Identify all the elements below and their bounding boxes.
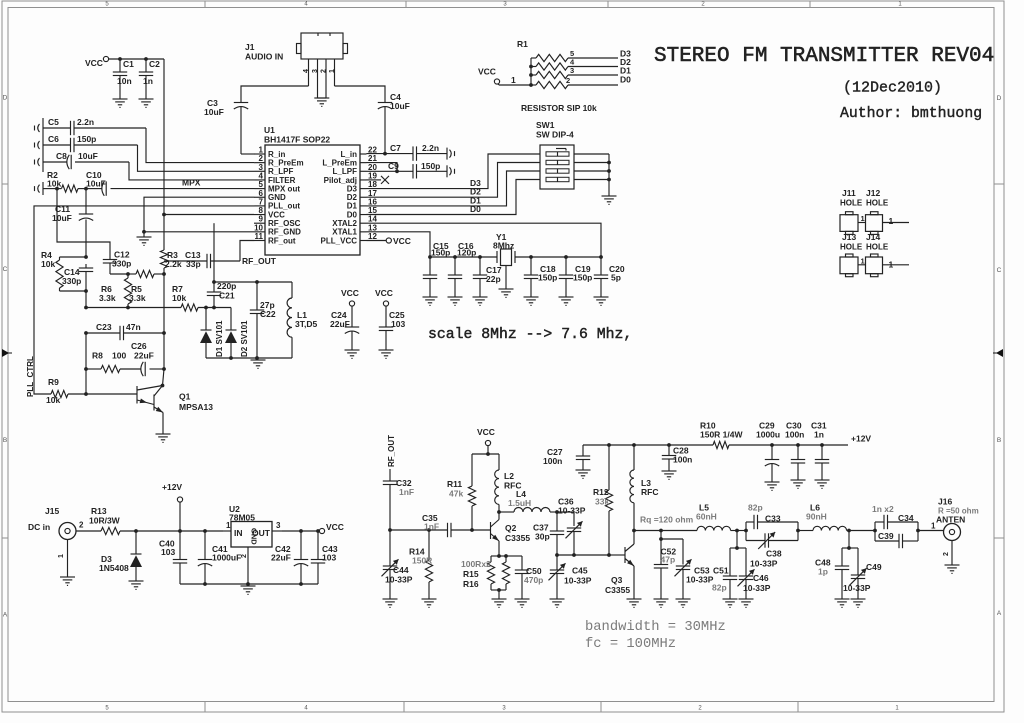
svg-text:D1 SV101: D1 SV101 (215, 320, 224, 357)
connector J1 AUDIO IN (245, 33, 348, 62)
svg-text:10uF: 10uF (86, 179, 106, 189)
svg-text:1: 1 (259, 146, 264, 155)
svg-text:R12: R12 (593, 487, 609, 497)
svg-text:33k: 33k (595, 497, 609, 507)
svg-text:J14: J14 (866, 232, 880, 242)
svg-text:22uF: 22uF (134, 351, 154, 361)
svg-text:82p: 82p (748, 503, 763, 513)
svg-text:RF_GND: RF_GND (268, 228, 301, 237)
svg-text:C23: C23 (96, 322, 112, 332)
capacitor C25 (379, 306, 406, 350)
wire J15 to ground (58, 540, 68, 578)
svg-text:VCC: VCC (268, 210, 285, 219)
ground (C16) (448, 297, 463, 305)
resistor R13 (89, 506, 121, 535)
wire C8 to U1 pin 4 (129, 162, 254, 180)
U1 pin 15 D0 (347, 206, 378, 219)
svg-text:82p: 82p (712, 583, 727, 593)
svg-text:10-33P: 10-33P (743, 583, 771, 593)
capacitor C23 (84, 322, 166, 340)
svg-text:C46: C46 (753, 573, 769, 583)
svg-text:C: C (997, 267, 1002, 274)
resistor R3 (160, 249, 181, 274)
varactor diode D1 (200, 308, 212, 359)
wire J15 to R13 (76, 530, 101, 532)
node MPX label (182, 178, 201, 188)
svg-text:1p: 1p (818, 567, 828, 577)
capacitor C40 (159, 531, 187, 584)
connector J15 DC in (28, 506, 84, 540)
U1 pin 21 L_PreEm (322, 154, 377, 167)
svg-text:VCC: VCC (477, 427, 495, 437)
crystal Y1 8MHz (493, 232, 515, 266)
svg-text:C21: C21 (219, 291, 235, 301)
capacitor C32 (383, 469, 414, 530)
svg-text:C51: C51 (713, 566, 729, 576)
svg-text:RF_OUT: RF_OUT (387, 435, 396, 467)
resistor R12 (593, 445, 613, 555)
wire bottom row (R7) (84, 306, 181, 310)
svg-text:D: D (997, 95, 1002, 102)
svg-text:R13: R13 (91, 506, 107, 516)
label D1 (left) (470, 195, 481, 205)
svg-text:10k: 10k (172, 293, 186, 303)
wire R4/C14 bottom node (60, 289, 88, 307)
capacitor C31 (811, 421, 829, 481)
capacitor C18 (524, 257, 558, 297)
svg-text:2: 2 (943, 552, 950, 556)
svg-text:15: 15 (368, 206, 377, 215)
svg-text:6: 6 (259, 189, 264, 198)
scale note text (428, 327, 632, 343)
ground (C46) (739, 599, 754, 607)
ground (Q2 emitter) (492, 599, 507, 607)
svg-text:2: 2 (566, 76, 570, 85)
title text (654, 45, 994, 68)
svg-text:R_PreEm: R_PreEm (268, 158, 304, 167)
U1 pin 19 Pilot_adj (324, 171, 378, 184)
svg-text:C9: C9 (388, 161, 399, 171)
ground (C45) (550, 599, 565, 607)
capacitor C4 (378, 92, 410, 154)
capacitor C13 (164, 250, 240, 269)
capacitor C27 (543, 445, 590, 470)
svg-text:3: 3 (276, 521, 281, 530)
ground (C31) (815, 480, 830, 488)
label Rq (640, 515, 694, 525)
svg-text:RF_OSC: RF_OSC (268, 219, 301, 228)
svg-text:2.2n: 2.2n (422, 143, 439, 153)
svg-text:C5: C5 (48, 117, 59, 127)
capacitor C52 (654, 531, 677, 600)
svg-text:22uF: 22uF (271, 553, 291, 563)
wire PLL_CTRL rail (34, 206, 254, 394)
border zone ticks bottom (204, 702, 206, 712)
U1 pin 20 L_LPF (333, 163, 378, 176)
svg-text:MPX out: MPX out (268, 184, 300, 193)
svg-text:HOLE: HOLE (840, 243, 863, 252)
ground (C28) (662, 471, 677, 479)
capacitor C5 (43, 117, 146, 135)
svg-text:Author: bmthuong: Author: bmthuong (840, 106, 982, 122)
wire C3 to U1 pin 1 (241, 153, 254, 155)
net flag (C5 input) (35, 118, 44, 172)
svg-text:10-33P: 10-33P (558, 506, 586, 516)
capacitor C17 (473, 257, 502, 297)
resistor R9 (46, 369, 88, 405)
svg-text:B: B (997, 437, 1001, 444)
svg-text:PLL_VCC: PLL_VCC (321, 236, 358, 245)
svg-text:10uF: 10uF (52, 213, 72, 223)
ground (C30) (791, 480, 806, 488)
capacitor C28 (662, 445, 693, 471)
svg-text:1: 1 (226, 521, 231, 530)
variable capacitor C46 (738, 548, 771, 599)
svg-text:SW1: SW1 (536, 120, 555, 130)
svg-text:22uF: 22uF (330, 319, 350, 329)
ground (R14) (422, 599, 437, 607)
wire U2 out to VCC (282, 529, 320, 533)
label D1 (right of R1) (620, 66, 631, 76)
ground (C48) (835, 599, 850, 607)
svg-text:bandwidth = 30MHz: bandwidth = 30MHz (585, 619, 726, 635)
variable capacitor C45 (549, 555, 592, 599)
label +12V (rail) (851, 434, 871, 444)
capacitor C29 (756, 421, 780, 483)
svg-text:D0: D0 (620, 75, 631, 85)
ground (J1) (314, 98, 329, 106)
wire J1 pin1 to C4 (335, 86, 386, 103)
svg-text:10-33P: 10-33P (385, 575, 413, 585)
label D3 (right of R1) (620, 49, 631, 59)
svg-text:Q1: Q1 (179, 392, 191, 402)
wire Q2 emitter bracket (491, 554, 522, 558)
svg-text:150R 1/4W: 150R 1/4W (700, 430, 743, 440)
capacitor C51 (712, 531, 746, 600)
svg-text:2: 2 (321, 69, 328, 73)
svg-text:10k: 10k (41, 259, 55, 269)
wire C6 to U1 pin 3 (138, 145, 255, 171)
svg-text:L2: L2 (504, 471, 514, 481)
inductor L5 (696, 503, 746, 533)
label D0 (left) (470, 204, 481, 214)
wire U1 pin6 GND (144, 197, 254, 232)
power symbol VCC (C1/C2) (85, 56, 164, 68)
svg-text:3: 3 (259, 163, 264, 172)
ground (C2) (139, 99, 154, 107)
svg-text:XTAL2: XTAL2 (332, 219, 357, 228)
no-connect X pin 19 (367, 176, 390, 184)
U1 pin 5 MPX out (254, 180, 300, 193)
ground (C20) (594, 297, 609, 305)
wire R9 to Q1 base (86, 393, 137, 395)
svg-text:D2 SV101: D2 SV101 (240, 320, 249, 357)
capacitor C9 (367, 161, 448, 179)
label RF_OUT (net) (387, 435, 396, 467)
svg-text:J16: J16 (938, 497, 952, 507)
svg-text:14: 14 (368, 215, 377, 224)
svg-text:R9: R9 (48, 377, 59, 387)
svg-text:100n: 100n (543, 456, 562, 466)
svg-text:150p: 150p (538, 273, 557, 283)
wire net D0 (U1 pin 15 to SW1) (367, 180, 541, 215)
hole J12 (858, 188, 909, 234)
wire U1 pin 9 to C21 node (212, 223, 216, 284)
ground (SW1) (602, 196, 617, 204)
svg-text:19: 19 (368, 171, 377, 180)
svg-text:10: 10 (254, 223, 263, 232)
net flag (R2 input) (35, 182, 44, 195)
ground (C17) (473, 297, 488, 305)
capacitor C22 (250, 282, 276, 358)
U1 pin 16 D1 (347, 197, 378, 210)
border zone ticks right (994, 183, 1004, 185)
svg-text:1: 1 (861, 256, 865, 265)
svg-text:B: B (3, 437, 7, 444)
svg-text:C7: C7 (390, 143, 401, 153)
U1 pin 7 PLL_out (254, 197, 300, 210)
svg-text:Pilot_adj: Pilot_adj (324, 176, 357, 185)
resistor R2 (43, 170, 86, 192)
ground (tank) (251, 360, 266, 368)
resistor R16 (463, 556, 510, 590)
svg-text:Q3: Q3 (611, 575, 623, 585)
svg-text:A: A (3, 612, 8, 619)
wire VCC node (472, 453, 499, 455)
ground (U2) (241, 586, 256, 594)
svg-text:C26: C26 (131, 341, 147, 351)
svg-text:VCC: VCC (478, 67, 496, 77)
net flag (C7) (447, 148, 455, 160)
svg-text:C1: C1 (123, 59, 134, 69)
wire U2 GND pin (241, 547, 248, 584)
ground (C51) (723, 599, 738, 607)
svg-text:10R/3W: 10R/3W (89, 516, 121, 526)
svg-text:10uF: 10uF (390, 101, 410, 111)
capacitor C6 (43, 134, 138, 152)
capacitor C19 (559, 257, 593, 297)
wire Q1 emitter (162, 413, 164, 435)
wire to antenna (918, 522, 944, 531)
capacitor C16 (448, 241, 477, 297)
svg-text:103: 103 (391, 319, 405, 329)
variable capacitor C44 (382, 530, 413, 599)
power symbol +12V (input) (162, 482, 183, 531)
wire J1 pin4 to C3 (241, 86, 309, 103)
svg-text:C38: C38 (766, 549, 782, 559)
svg-text:C3355: C3355 (505, 533, 530, 543)
border zone ticks left (2, 183, 8, 185)
svg-text:MPX: MPX (182, 178, 201, 188)
border center arrow right (996, 349, 1003, 357)
svg-text:10k: 10k (47, 179, 61, 189)
wire C36/C45 bottom row (555, 553, 611, 557)
U1 pin 22 L_in (341, 146, 378, 159)
ground (Q3) (627, 599, 642, 607)
power symbol VCC (U2 out) (319, 522, 344, 534)
svg-text:13: 13 (368, 223, 377, 232)
svg-text:C22: C22 (260, 309, 276, 319)
svg-text:J12: J12 (866, 188, 880, 198)
svg-text:VCC: VCC (341, 288, 359, 298)
resistor R15 (461, 556, 495, 590)
svg-text:16: 16 (368, 197, 377, 206)
svg-text:C45: C45 (572, 566, 588, 576)
ground (C27) (576, 470, 591, 478)
ground (C52) (654, 599, 669, 607)
label D2 (left) (470, 187, 481, 197)
capacitor C24 (330, 306, 359, 350)
svg-text:J15: J15 (45, 506, 59, 516)
svg-text:C34: C34 (898, 513, 914, 523)
inductor L3 RFC (630, 445, 659, 531)
svg-text:5p: 5p (611, 273, 621, 283)
svg-text:1n: 1n (814, 430, 824, 440)
capacitor C8 (43, 151, 129, 169)
capacitor C26 (120, 341, 166, 376)
svg-text:47k: 47k (449, 489, 463, 499)
svg-text:150p: 150p (573, 273, 592, 283)
power symbol VCC (Q2) (477, 427, 495, 456)
svg-text:60nH: 60nH (696, 512, 717, 522)
svg-text:1N5408: 1N5408 (99, 563, 129, 573)
svg-text:3T,D5: 3T,D5 (295, 319, 317, 329)
svg-text:10uF: 10uF (204, 107, 224, 117)
J1 pin 4 (303, 59, 310, 86)
svg-text:J11: J11 (842, 188, 856, 198)
wire C5 to U1 pin 2 (146, 128, 254, 163)
wire supply bottom rail (180, 582, 318, 586)
ground (C50) (515, 599, 530, 607)
border zone ticks top (204, 1, 206, 8)
svg-text:C49: C49 (866, 562, 882, 572)
capacitor C1 (113, 57, 134, 99)
svg-text:C44: C44 (393, 565, 409, 575)
ground (C49) (851, 599, 866, 607)
wire net D2 (U1 pin 17 to SW1) (367, 163, 541, 198)
svg-text:DC in: DC in (28, 522, 50, 532)
wires SW1 to ground rail (574, 154, 611, 196)
svg-text:HOLE: HOLE (866, 199, 889, 208)
filter block C33/C38 (744, 503, 800, 569)
svg-text:C8: C8 (56, 151, 67, 161)
svg-text:VCC: VCC (326, 522, 344, 532)
svg-text:30p: 30p (535, 532, 550, 542)
capacitor C42 (271, 531, 308, 584)
svg-text:R16: R16 (463, 579, 479, 589)
capacitor C12 (103, 250, 132, 275)
svg-text:2: 2 (79, 521, 84, 530)
variable capacitor C49 (843, 548, 882, 599)
svg-text:+12V: +12V (162, 482, 182, 492)
capacitor C2 (139, 57, 160, 99)
svg-text:C: C (3, 266, 8, 273)
U1 pin 18 D3 (347, 180, 378, 193)
net flag (C8 input) (35, 158, 40, 166)
svg-text:L_LPF: L_LPF (333, 167, 358, 176)
filter block C34/C39 (872, 504, 920, 548)
svg-text:1n: 1n (143, 76, 153, 86)
switch SW1 SW DIP-4 (536, 120, 574, 189)
J1 pin 2 (321, 59, 328, 98)
svg-text:C39: C39 (878, 531, 894, 541)
svg-text:10-33P: 10-33P (686, 575, 714, 585)
wire VCC to R1 pin1 (498, 75, 531, 85)
svg-text:100Rx2: 100Rx2 (461, 559, 491, 569)
wire U1 pin13 XTAL1 to bus (367, 232, 431, 257)
resistor R14 (409, 530, 433, 599)
U1 pin 14 XTAL2 (332, 215, 377, 228)
svg-text:HOLE: HOLE (840, 199, 863, 208)
power symbol VCC (R1) (478, 67, 500, 85)
inductor L4 (499, 489, 559, 514)
svg-text:22p: 22p (486, 274, 501, 284)
ground (D3) (129, 581, 144, 589)
diode D3 1N5408 (99, 531, 142, 581)
svg-text:1.5uH: 1.5uH (508, 498, 531, 508)
svg-text:U1: U1 (264, 125, 275, 135)
svg-text:R11: R11 (447, 479, 462, 489)
svg-text:4: 4 (259, 171, 264, 180)
resistor R5 (129, 270, 166, 333)
svg-text:Rq =120 ohm: Rq =120 ohm (640, 515, 694, 525)
inductor L2 RFC (495, 454, 522, 512)
wire +12V top rail (583, 443, 713, 447)
U1 pin 9 RF_OSC (254, 215, 301, 228)
capacitor C41 (198, 531, 241, 584)
svg-text:18: 18 (368, 180, 377, 189)
resistor R7 (172, 284, 231, 311)
J1 pin 1 (329, 59, 336, 86)
svg-text:1nF: 1nF (424, 522, 439, 532)
capacitor C50 (515, 556, 544, 599)
capacitor C20 (594, 257, 625, 297)
svg-text:IN: IN (234, 528, 243, 538)
svg-text:17: 17 (368, 189, 377, 198)
ground (C25) (379, 350, 394, 358)
svg-text:150p: 150p (77, 134, 96, 144)
svg-text:+12V: +12V (851, 434, 871, 444)
transistor Q2 C3355 (491, 510, 531, 556)
svg-text:103: 103 (161, 547, 175, 557)
capacitor C15 (423, 241, 451, 297)
svg-text:GND: GND (250, 528, 259, 545)
svg-text:150R: 150R (412, 556, 432, 566)
ground (C19) (559, 297, 574, 305)
wire varactor node row (110, 272, 136, 276)
U1 pin 2 R_PreEm (254, 154, 304, 167)
svg-text:R1: R1 (517, 39, 528, 49)
svg-text:150p: 150p (421, 161, 440, 171)
hole J13 (840, 232, 863, 277)
ground (C24) (345, 350, 360, 358)
svg-text:1000uF: 1000uF (212, 553, 241, 563)
capacitor C14 (62, 264, 93, 291)
wire net D1 (U1 pin 16 to SW1) (367, 171, 541, 206)
svg-text:7: 7 (259, 197, 264, 206)
IC U1 BH1417F SOP22 (264, 125, 360, 255)
svg-text:1000u: 1000u (756, 430, 780, 440)
svg-text:1: 1 (329, 69, 336, 73)
svg-text:scale 8Mhz --> 7.6 Mhz,: scale 8Mhz --> 7.6 Mhz, (428, 327, 632, 343)
svg-text:11: 11 (255, 232, 264, 241)
net flag (C9) (447, 165, 455, 177)
hole J11 (840, 188, 863, 234)
wire net D3 (U1 pin 18 to SW1) (367, 154, 541, 189)
svg-text:C3355: C3355 (605, 585, 630, 595)
svg-text:12: 12 (368, 232, 377, 241)
label D2 SV101 (240, 320, 249, 357)
